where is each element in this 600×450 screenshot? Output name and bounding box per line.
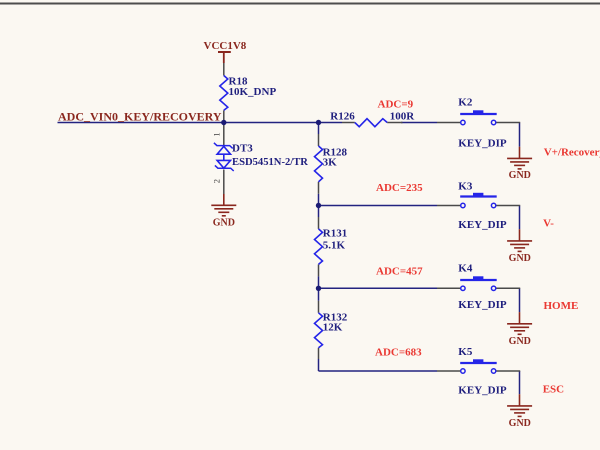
svg-text:ESC: ESC (543, 383, 564, 395)
svg-text:ADC=9: ADC=9 (378, 99, 414, 111)
svg-text:HOME: HOME (544, 300, 579, 312)
svg-text:5.1K: 5.1K (323, 239, 346, 251)
svg-text:ADC=683: ADC=683 (375, 347, 422, 359)
svg-text:ADC=235: ADC=235 (376, 182, 423, 194)
svg-text:R126: R126 (330, 111, 355, 123)
svg-text:ADC=457: ADC=457 (376, 266, 423, 278)
svg-text:12K: 12K (323, 322, 343, 334)
svg-text:DT3: DT3 (232, 143, 253, 155)
svg-text:KEY_DIP: KEY_DIP (458, 385, 507, 397)
svg-text:1: 1 (212, 132, 222, 136)
svg-text:GND: GND (509, 170, 531, 181)
svg-text:K4: K4 (458, 263, 473, 275)
svg-text:GND: GND (213, 217, 235, 228)
svg-text:V+/Recovery: V+/Recovery (544, 147, 600, 159)
svg-text:K3: K3 (458, 181, 473, 193)
svg-text:R131: R131 (323, 228, 347, 240)
svg-text:V-: V- (543, 217, 554, 229)
svg-text:KEY_DIP: KEY_DIP (458, 299, 507, 311)
svg-text:K5: K5 (458, 346, 473, 358)
svg-text:GND: GND (509, 336, 531, 347)
svg-text:KEY_DIP: KEY_DIP (458, 137, 507, 149)
svg-text:ESD5451N-2/TR: ESD5451N-2/TR (232, 157, 308, 168)
svg-text:ADC_VIN0_KEY/RECOVERY: ADC_VIN0_KEY/RECOVERY (58, 110, 222, 124)
svg-text:K2: K2 (458, 97, 473, 109)
svg-text:VCC1V8: VCC1V8 (204, 40, 247, 52)
svg-text:100R: 100R (390, 111, 416, 123)
svg-text:3K: 3K (323, 157, 338, 169)
svg-text:KEY_DIP: KEY_DIP (458, 219, 507, 231)
svg-text:GND: GND (509, 253, 531, 264)
svg-text:10K_DNP: 10K_DNP (229, 86, 277, 98)
svg-text:GND: GND (509, 418, 531, 429)
svg-text:2: 2 (212, 179, 222, 183)
